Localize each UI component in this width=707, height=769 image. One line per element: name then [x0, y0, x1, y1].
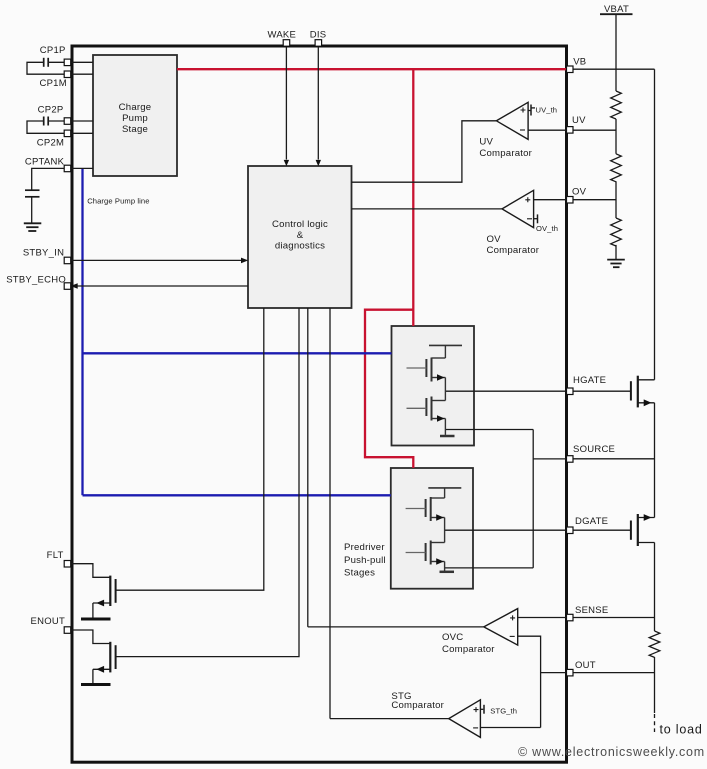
svg-text:Charge Pump line: Charge Pump line	[87, 196, 149, 205]
svg-text:CP1P: CP1P	[40, 45, 66, 56]
svg-text:DGATE: DGATE	[575, 516, 608, 527]
svg-text:Control logic: Control logic	[272, 219, 328, 230]
svg-text:CP2P: CP2P	[38, 105, 64, 116]
svg-text:UV_th: UV_th	[536, 105, 558, 114]
svg-text:ENOUT: ENOUT	[31, 616, 66, 627]
svg-text:CP1M: CP1M	[39, 78, 66, 89]
svg-text:OV: OV	[487, 234, 502, 245]
svg-text:HGATE: HGATE	[573, 375, 606, 386]
svg-text:STBY_IN: STBY_IN	[23, 248, 64, 259]
svg-text:VB: VB	[573, 56, 586, 67]
svg-text:Stages: Stages	[344, 568, 375, 579]
svg-text:© www.electronicsweekly.com: © www.electronicsweekly.com	[518, 745, 705, 759]
svg-text:UV: UV	[572, 115, 586, 126]
svg-text:UV: UV	[479, 137, 493, 148]
svg-text:Charge: Charge	[119, 102, 152, 113]
svg-text:VBAT: VBAT	[604, 4, 629, 15]
svg-text:Push-pull: Push-pull	[344, 555, 386, 566]
svg-text:Comparator: Comparator	[391, 700, 444, 711]
svg-text:OV: OV	[572, 186, 587, 197]
svg-text:to load: to load	[660, 723, 703, 737]
svg-text:diagnostics: diagnostics	[275, 241, 325, 252]
svg-text:SENSE: SENSE	[575, 605, 608, 616]
svg-text:WAKE: WAKE	[267, 29, 296, 40]
svg-text:CPTANK: CPTANK	[25, 157, 65, 168]
svg-text:Stage: Stage	[122, 124, 148, 135]
svg-text:OV_th: OV_th	[536, 224, 558, 233]
svg-text:Comparator: Comparator	[487, 245, 540, 256]
svg-text:&: &	[297, 230, 304, 241]
svg-text:Comparator: Comparator	[442, 644, 495, 655]
svg-text:SOURCE: SOURCE	[573, 444, 615, 455]
svg-text:OVC: OVC	[442, 632, 463, 643]
svg-text:Pump: Pump	[122, 113, 148, 124]
svg-text:OUT: OUT	[575, 660, 596, 671]
svg-text:CP2M: CP2M	[37, 137, 64, 148]
svg-text:STG_th: STG_th	[490, 707, 517, 716]
svg-text:Predriver: Predriver	[344, 542, 385, 553]
svg-text:STBY_ECHO: STBY_ECHO	[6, 274, 66, 285]
svg-text:FLT: FLT	[47, 550, 64, 561]
svg-text:Comparator: Comparator	[479, 148, 532, 159]
svg-text:DIS: DIS	[310, 29, 327, 40]
